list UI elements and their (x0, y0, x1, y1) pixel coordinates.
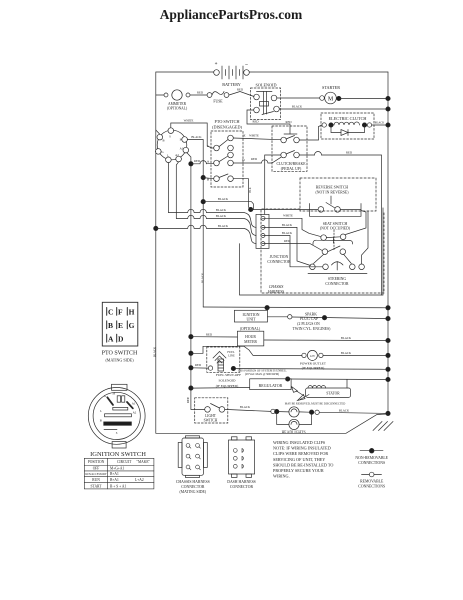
svg-text:CONNECTOR: CONNECTOR (230, 485, 254, 489)
svg-text:BLACK: BLACK (216, 214, 227, 218)
ignition switch table (84, 458, 154, 489)
svg-text:BLACK: BLACK (153, 346, 157, 357)
regulator (250, 379, 291, 390)
svg-text:WHITE: WHITE (249, 133, 259, 137)
svg-text:BLACK: BLACK (282, 231, 293, 235)
svg-text:CLIPS WERE REMOVED FOR: CLIPS WERE REMOVED FOR (273, 451, 328, 456)
svg-text:BLACK: BLACK (218, 197, 229, 201)
svg-text:M: M (180, 138, 183, 142)
svg-text:CONNECTOR: CONNECTOR (267, 260, 291, 264)
svg-text:IGNITION SWITCH: IGNITION SWITCH (90, 451, 146, 458)
svg-text:FUEL SHUT-OFF: FUEL SHUT-OFF (216, 373, 241, 377)
wire fuse to solenoid, RED (229, 92, 254, 97)
svg-text:RED: RED (206, 332, 213, 336)
svg-text:PLUG CAP: PLUG CAP (300, 317, 318, 321)
svg-text:F: F (118, 308, 123, 317)
svg-text:CHASSIS: CHASSIS (269, 285, 284, 289)
wire harness 2 BLACK (L) (168, 209, 256, 227)
svg-text:JUNCTION: JUNCTION (270, 255, 289, 259)
svg-text:L: L (167, 153, 169, 157)
wire PTO B right down to reverse switch (233, 179, 250, 210)
junction dot bus y355 (386, 353, 390, 357)
svg-text:(OPTIONAL): (OPTIONAL) (240, 327, 261, 331)
wire S terminal WHITE to PTO C (171, 123, 214, 148)
hour meter (237, 331, 263, 346)
reverse switch (not in reverse) (300, 178, 376, 216)
svg-text:RED: RED (251, 157, 258, 161)
svg-text:A2: A2 (133, 410, 137, 414)
chassis harness enclosure (solid) (240, 208, 384, 295)
steering connector (308, 262, 367, 286)
junction dot left bus harness wire (154, 226, 158, 230)
svg-text:G: G (129, 321, 135, 330)
wire fuel solenoid right to bus (236, 368, 388, 371)
PTO switch (mating side) (102, 302, 138, 362)
svg-text:RUN/ACCESSORY: RUN/ACCESSORY (85, 473, 106, 476)
junction dot hour meter feed (189, 335, 193, 339)
svg-text:SWITCH: SWITCH (204, 418, 218, 422)
PTO switch (disengaged) (207, 119, 243, 187)
svg-text:STATOR: STATOR (326, 392, 340, 396)
svg-text:WHITE: WHITE (283, 214, 293, 218)
svg-text:B: B (162, 139, 164, 143)
wire PTO D RED to clutch/brake lower (233, 157, 281, 163)
svg-text:C: C (108, 308, 113, 317)
junction dot M wire to harness (201, 200, 205, 204)
svg-text:D: D (118, 334, 124, 343)
fuse F1 (207, 92, 229, 104)
svg-text:12V: 12V (310, 354, 316, 358)
svg-text:RUN: RUN (92, 478, 100, 482)
junction dot spark wire (322, 316, 326, 320)
svg-text:HOUR: HOUR (245, 335, 256, 339)
legend removable connections (358, 472, 385, 488)
svg-text:CHASSIS HARNESS: CHASSIS HARNESS (176, 480, 210, 484)
svg-text:(28 VAC MAX @ 3600 RPM): (28 VAC MAX @ 3600 RPM) (245, 373, 279, 376)
electric clutch (321, 113, 374, 139)
wire reverse switch to seat switch (340, 208, 361, 210)
svg-text:RED: RED (286, 120, 293, 124)
svg-text:RED: RED (187, 397, 190, 403)
wire A2 terminal down (176, 162, 178, 219)
svg-text:CLUTCH/BRAKE: CLUTCH/BRAKE (276, 162, 306, 166)
svg-text:S: S (116, 431, 118, 435)
svg-text:REGULATOR: REGULATOR (259, 383, 283, 388)
svg-text:B + S + A1: B + S + A1 (110, 484, 126, 488)
wire hour meter right BLACK to bus (264, 339, 388, 342)
svg-text:B: B (108, 321, 113, 330)
svg-text:BLACK: BLACK (339, 408, 350, 412)
svg-text:RED: RED (346, 150, 353, 154)
wire magneto line y307 (203, 306, 388, 309)
svg-text:SEAT SWITCH: SEAT SWITCH (323, 222, 348, 226)
wire L terminal down (167, 163, 169, 213)
wire PTO E WHITE to clutch/brake (233, 138, 280, 140)
wire A1 junction to PTO A, RED (hump over M vertical) (191, 161, 214, 164)
svg-text:CONNECTOR: CONNECTOR (325, 282, 349, 286)
ignition switch connector (mating view) (88, 384, 146, 458)
wire bottom border (156, 414, 388, 433)
wire 12V outlet left (191, 346, 302, 355)
svg-text:A: A (207, 159, 210, 163)
junction dot bus y308 (386, 306, 390, 310)
wire hour meter left RED (191, 336, 238, 338)
svg-text:FUSE: FUSE (213, 100, 223, 104)
junction dot 12V feed (189, 351, 193, 355)
svg-text:A2: A2 (175, 153, 179, 157)
junction dot bus y99 (386, 96, 390, 100)
svg-text:(OPTIONAL): (OPTIONAL) (167, 107, 188, 111)
svg-text:RED: RED (253, 120, 260, 124)
wire ammeter to fuse, RED (190, 94, 207, 96)
svg-text:L+A2: L+A2 (135, 478, 144, 482)
wire right bus vertical (387, 72, 389, 414)
svg-text:BLACK: BLACK (240, 405, 251, 409)
svg-text:BLK: BLK (249, 187, 252, 192)
svg-text:(MATING SIDE): (MATING SIDE) (105, 357, 134, 362)
junction dot M-vertical/PTO-B wire (201, 175, 205, 179)
svg-text:HARNESS: HARNESS (267, 290, 284, 294)
wire 12V right BLACK to bus (323, 354, 388, 356)
spark plug terminal (288, 315, 292, 319)
dash harness connector (227, 437, 256, 489)
wire harness 3 BLACK (A2) (176, 215, 256, 235)
svg-text:A1: A1 (180, 147, 184, 151)
solenoid (251, 82, 281, 119)
svg-text:+: + (215, 62, 218, 67)
wire stub to ignition unit (266, 308, 268, 311)
svg-text:S: S (169, 135, 171, 139)
svg-text:AppliancePartsPros.com: AppliancePartsPros.com (160, 7, 303, 22)
junction dot bus y318.6 (386, 316, 390, 320)
svg-text:G: G (161, 150, 164, 154)
wire regulator left (191, 387, 250, 390)
svg-text:SPARK: SPARK (305, 312, 317, 316)
svg-text:M: M (328, 96, 334, 102)
svg-text:M+G+A1: M+G+A1 (110, 466, 124, 470)
svg-text:AMMETER: AMMETER (168, 102, 187, 106)
svg-text:(NOT OCCUPIED): (NOT OCCUPIED) (320, 227, 351, 231)
battery B1 (214, 62, 250, 87)
legend non-removable connections (355, 448, 388, 465)
wire spark plug to right bus (292, 317, 388, 319)
svg-text:ELECTRIC CLUTCH: ELECTRIC CLUTCH (329, 116, 367, 121)
svg-text:NON-REMOVABLE: NON-REMOVABLE (355, 456, 388, 460)
svg-text:(NOT IN REVERSE): (NOT IN REVERSE) (315, 191, 349, 195)
svg-text:WIRING.: WIRING. (273, 474, 290, 479)
svg-text:NOTE: IF WIRING INSULATED: NOTE: IF WIRING INSULATED (273, 446, 331, 451)
junction dot bus y125 (386, 123, 390, 127)
wire clutch/brake lower-left to junction connector pin1 (265, 155, 281, 214)
light switch (195, 398, 228, 423)
svg-text:B+A1: B+A1 (110, 478, 119, 482)
svg-text:TWIN CYL. ENGINES): TWIN CYL. ENGINES) (293, 327, 332, 331)
svg-text:RED: RED (194, 159, 201, 163)
wire battery positive loop to left bus (156, 72, 214, 95)
junction dot bus y109 (386, 107, 390, 111)
svg-text:PROPERLY SECURE YOUR: PROPERLY SECURE YOUR (273, 468, 324, 473)
junction dot A1/PTO-A wire (189, 162, 193, 166)
wire pin4 RED to seat switch (262, 244, 322, 251)
svg-text:BLACK: BLACK (341, 351, 352, 355)
svg-text:METER: METER (244, 340, 257, 344)
svg-text:PTO SWITCH: PTO SWITCH (215, 119, 240, 124)
junction dot fuel solenoid feed (189, 366, 193, 370)
chassis harness dashed boundary (261, 209, 384, 293)
wire stator to regulator-top wire (346, 379, 348, 388)
junction dot regulator top (286, 377, 290, 381)
svg-text:B: B (100, 419, 102, 423)
junction dot bus y379.5 (386, 377, 390, 381)
ground (373, 422, 393, 431)
svg-text:BLACK: BLACK (216, 208, 227, 212)
wire junction to PTO B (203, 178, 214, 179)
svg-text:UNIT: UNIT (246, 318, 256, 322)
flywheel arrows (292, 387, 298, 393)
svg-text:RED: RED (237, 87, 244, 91)
svg-text:BLACK: BLACK (341, 336, 352, 340)
svg-text:CONNECTOR: CONNECTOR (181, 485, 205, 489)
svg-text:M: M (113, 392, 116, 396)
svg-text:LIGHT: LIGHT (205, 414, 217, 418)
svg-text:REMOVABLE: REMOVABLE (360, 480, 384, 484)
svg-text:BLACK: BLACK (292, 104, 303, 108)
junction dot regulator feed (189, 386, 193, 390)
wire solenoid to starter (277, 97, 320, 99)
svg-text:A: A (108, 334, 114, 343)
junction dot bus y369 (386, 367, 390, 371)
ignition unit (234, 310, 267, 322)
chassis harness connector (mating side) (176, 436, 210, 494)
wire ignition unit to spark plug cap (268, 316, 288, 318)
ignition switch (schematic) (156, 128, 189, 163)
svg-text:SHOULD BE RE-INSTALLED TO: SHOULD BE RE-INSTALLED TO (273, 462, 333, 467)
svg-text:(PEDAL UP): (PEDAL UP) (281, 167, 302, 171)
junction dot starter output (337, 96, 341, 100)
wire headlights to bus BLACK (319, 412, 388, 413)
svg-text:BLACK: BLACK (282, 223, 293, 227)
ammeter (optional) (156, 90, 190, 111)
wire solenoid lower contact to right bus, BLACK (279, 108, 388, 110)
wire M terminal BLACK down junction vertical (187, 140, 203, 308)
svg-text:RED: RED (197, 90, 204, 94)
svg-text:(MATING SIDE): (MATING SIDE) (179, 490, 206, 494)
wire electric clutch to right bus, BLACK (372, 124, 388, 126)
svg-text:RED: RED (195, 363, 202, 367)
svg-text:BLACK: BLACK (218, 224, 229, 228)
clutch/brake (pedal up) switch (272, 126, 307, 171)
svg-text:REVERSE SWITCH: REVERSE SWITCH (316, 185, 349, 189)
svg-text:BLACK: BLACK (375, 121, 384, 124)
note wiring insulated clips (273, 440, 333, 479)
svg-text:C: C (207, 144, 210, 148)
wire fuel solenoid left RED (191, 367, 208, 369)
wire regulator top to bus (291, 378, 388, 381)
svg-text:(2 PLUGS ON: (2 PLUGS ON (297, 322, 320, 326)
svg-text:OFF: OFF (93, 466, 100, 470)
svg-text:DASH HARNESS: DASH HARNESS (227, 480, 256, 484)
svg-text:CIRCUIT: CIRCUIT (117, 460, 132, 464)
junction dot bus bottom (386, 411, 390, 415)
svg-text:PTO SWITCH: PTO SWITCH (102, 351, 138, 357)
wire steering right to box edge (362, 211, 368, 264)
wire starter to right bus (339, 98, 388, 100)
seat switch (not occupied) (313, 222, 353, 255)
wire G terminal to left bus (155, 150, 157, 152)
junction dot bus y340.5 (386, 338, 390, 342)
svg-text:RED: RED (284, 239, 291, 243)
svg-text:H: H (129, 308, 135, 317)
svg-text:D: D (242, 158, 245, 162)
starter M1 (320, 85, 341, 104)
svg-text:HEADLIGHTS: HEADLIGHTS (282, 430, 306, 434)
svg-text:POWER OUTLET: POWER OUTLET (300, 361, 327, 365)
wire A1 terminal down to lower bus (187, 153, 191, 410)
wire seat switch to steering connector right (344, 254, 352, 263)
svg-text:(DISENGAGED): (DISENGAGED) (212, 124, 242, 129)
wire solenoid coil to clutch/brake pedal switch, RED (247, 110, 290, 134)
fuel shut-off solenoid (207, 347, 241, 388)
wire B terminal to left bus (156, 130, 160, 134)
wire harness 1 BLACK (203, 202, 253, 210)
svg-text:STARTER: STARTER (322, 85, 340, 90)
svg-text:B+A1: B+A1 (110, 472, 119, 476)
svg-text:L: L (100, 409, 102, 413)
junction connector (256, 214, 291, 263)
wire pin1 WHITE to seat switch (262, 218, 320, 236)
wire clutch/brake lower to chassis vertical, RED (299, 154, 314, 156)
svg-text:LINE: LINE (228, 354, 235, 358)
svg-text:SOLENOID: SOLENOID (219, 379, 237, 383)
headlights (271, 407, 320, 435)
wire left bus vertical (155, 95, 157, 433)
svg-text:POSITION: POSITION (88, 460, 105, 464)
wire pin3 BLACK to steering connector (262, 236, 322, 267)
junction dot B/reverse wire (249, 207, 253, 211)
junction dot ignition unit feed (265, 306, 269, 310)
svg-text:SOLENOID: SOLENOID (256, 82, 277, 87)
svg-text:A1: A1 (132, 401, 136, 405)
svg-text:BLACK: BLACK (191, 135, 202, 139)
power outlet 12V (300, 350, 327, 369)
wire junction to reverse switch (251, 208, 318, 210)
svg-text:E: E (118, 321, 123, 330)
wire pin2 BLACK to steering connector (262, 227, 310, 265)
label spark plug cap (293, 312, 332, 330)
svg-text:–: – (244, 63, 248, 68)
svg-text:"MAKE": "MAKE" (137, 460, 151, 464)
wire harness 4 BLACK (bus) (156, 225, 256, 243)
svg-text:START: START (91, 484, 103, 488)
wire light switch to headlights BLACK (225, 409, 271, 411)
svg-text:STEERING: STEERING (328, 277, 347, 281)
svg-text:BATTERY: BATTERY (222, 82, 241, 87)
wire seat switch to steering connector left (314, 254, 324, 263)
wire clutch/brake to electric clutch (299, 125, 322, 140)
stator (306, 386, 351, 398)
svg-text:WHITE: WHITE (184, 119, 194, 123)
svg-text:E: E (243, 134, 245, 138)
svg-text:CONNECTIONS: CONNECTIONS (358, 485, 385, 489)
wire lower bus corner to light switch (191, 408, 205, 410)
svg-text:IGNITION: IGNITION (242, 313, 259, 317)
wire battery negative to right bus (249, 71, 388, 73)
svg-text:CONNECTIONS: CONNECTIONS (358, 461, 385, 465)
svg-text:MAY BE REMOVED, MUST BE DISCON: MAY BE REMOVED, MUST BE DISCONNECTED (285, 403, 346, 406)
svg-text:BLACK: BLACK (201, 272, 205, 283)
svg-text:WIRING INSULATED CLIPS: WIRING INSULATED CLIPS (273, 440, 326, 445)
